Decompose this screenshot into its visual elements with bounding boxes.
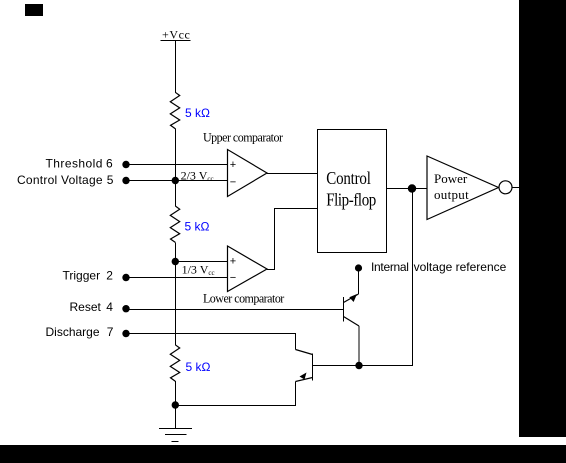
svg-text:Power: Power bbox=[434, 171, 468, 186]
node 2/3 Vcc junction bbox=[172, 177, 179, 184]
svg-text:5 kΩ: 5 kΩ bbox=[185, 106, 210, 120]
Q1 collector arm diagonal bbox=[344, 317, 360, 327]
power rail +Vcc bar bbox=[161, 40, 191, 42]
svg-text:voltage reference: voltage reference bbox=[414, 260, 507, 274]
wire: Vcc stem down to R1 bbox=[175, 41, 177, 93]
svg-text:7: 7 bbox=[107, 325, 114, 339]
resistor R1 zigzag bbox=[170, 92, 179, 128]
node output junction bbox=[408, 184, 416, 192]
svg-text:Discharge: Discharge bbox=[46, 325, 100, 339]
svg-text:Control: Control bbox=[326, 168, 371, 188]
node internal voltage reference terminal bbox=[355, 264, 362, 271]
wire: Q1 collector drop bbox=[358, 326, 360, 366]
wire: Q2 emitter drop to ground rail bbox=[175, 382, 296, 406]
wire: Trigger pin to lower - input bbox=[126, 277, 228, 279]
black column right bbox=[519, 0, 566, 437]
resistor R3 zigzag bbox=[170, 345, 179, 381]
wire: R3 to ground bbox=[175, 381, 177, 428]
svg-text:Upper comparator: Upper comparator bbox=[203, 130, 284, 145]
Q2 emitter arm diagonal bbox=[296, 378, 313, 382]
transistor Q1 base bar bbox=[343, 297, 345, 322]
Q2 emitter arrow bbox=[300, 373, 307, 380]
node Discharge terminal dot bbox=[122, 330, 129, 337]
node Reset terminal dot bbox=[122, 305, 129, 312]
wire: Q1 emitter riser to reference bbox=[358, 272, 360, 295]
black artifact square top-left bbox=[25, 4, 43, 16]
node ground junction bbox=[172, 401, 179, 408]
node Q1 collector junction bbox=[355, 362, 362, 369]
svg-text:Trigger: Trigger bbox=[63, 269, 101, 283]
wire: lower comparator out riser to flip-flop bbox=[267, 209, 318, 270]
node Trigger terminal dot bbox=[122, 274, 129, 281]
wire: Discharge pin across bbox=[126, 334, 296, 350]
power output buffer triangle bbox=[427, 156, 499, 220]
wire: 1/3 node to lower + input bbox=[176, 261, 228, 263]
svg-text:5 kΩ: 5 kΩ bbox=[185, 219, 210, 233]
wire: bubble to output edge bbox=[512, 187, 519, 189]
svg-text:+Vcc: +Vcc bbox=[162, 28, 191, 42]
node 1/3 Vcc junction bbox=[172, 258, 179, 265]
svg-text:5: 5 bbox=[107, 173, 114, 187]
svg-text:Control Voltage: Control Voltage bbox=[17, 173, 103, 187]
svg-text:Reset: Reset bbox=[70, 300, 102, 314]
Q1 emitter arrow bbox=[349, 294, 357, 302]
wire: output junction riser down to discharge base rail bbox=[313, 189, 413, 366]
svg-text:5 kΩ: 5 kΩ bbox=[186, 360, 211, 374]
svg-text:−: − bbox=[230, 272, 236, 284]
op-amp upper comparator triangle bbox=[228, 150, 268, 197]
svg-text:output: output bbox=[434, 187, 469, 202]
resistor R2 zigzag bbox=[170, 206, 179, 242]
wire: Control Voltage pin to - input bbox=[126, 180, 228, 182]
transistor Q2 base bar bbox=[312, 354, 314, 381]
svg-text:6: 6 bbox=[106, 157, 113, 171]
svg-text:2: 2 bbox=[106, 269, 113, 283]
wire: flip-flop out to power buffer bbox=[387, 188, 428, 190]
inverter bubble bbox=[499, 181, 512, 194]
node Control Voltage terminal dot bbox=[122, 177, 129, 184]
svg-text:Threshold: Threshold bbox=[46, 157, 103, 171]
svg-text:+: + bbox=[230, 256, 236, 268]
svg-text:4: 4 bbox=[106, 300, 113, 314]
svg-text:+: + bbox=[230, 159, 236, 171]
Q1 emitter arm diagonal bbox=[344, 294, 359, 303]
svg-text:Internal: Internal bbox=[371, 260, 409, 274]
ground bar 2 bbox=[165, 434, 187, 436]
svg-text:Lower comparator: Lower comparator bbox=[203, 291, 285, 306]
wire: R1 to R2 chain bbox=[175, 129, 177, 207]
Q2 collector arm diagonal bbox=[296, 350, 313, 355]
svg-text:−: − bbox=[230, 177, 236, 189]
black bar bottom bbox=[0, 445, 566, 463]
wire: upper comparator out to flip-flop bbox=[267, 173, 318, 175]
flip-flop box U1 bbox=[318, 130, 387, 253]
svg-text:Flip-flop: Flip-flop bbox=[326, 189, 376, 209]
wire: R2 to R3 chain bbox=[175, 243, 177, 346]
ground bar 3 bbox=[172, 441, 179, 443]
op-amp lower comparator triangle bbox=[228, 246, 268, 292]
wire: Threshold pin to + input bbox=[126, 164, 228, 166]
wire: Reset pin to Q1 base bbox=[126, 309, 344, 311]
node Threshold terminal dot bbox=[122, 161, 129, 168]
ground bar 1 bbox=[159, 428, 192, 430]
